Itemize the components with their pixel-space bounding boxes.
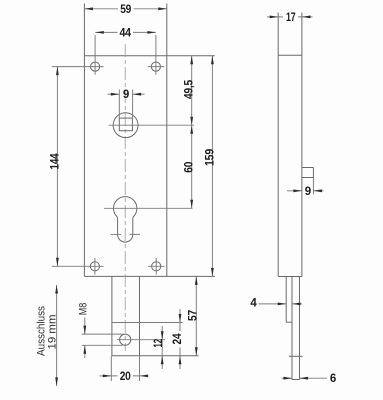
dimension 44: [95, 27, 156, 40]
dimension 12: [153, 326, 165, 369]
dimension 17: [267, 11, 313, 24]
svg-text:49,5: 49,5: [184, 79, 196, 99]
svg-text:19 mm: 19 mm: [47, 315, 59, 350]
side case top line: [278, 54, 302, 56]
hole top-left: [52, 35, 104, 75]
svg-text:9: 9: [305, 186, 311, 198]
svg-text:6: 6: [330, 373, 336, 385]
square follower hole: [109, 113, 194, 138]
dimension 24: [172, 309, 184, 369]
rod front strip (4mm): [286, 277, 292, 323]
dimension 9 side: [287, 178, 324, 198]
dimension 159: [204, 56, 216, 277]
hole bottom-left: [52, 258, 104, 275]
rod bar (6mm): [289, 277, 303, 380]
dimension 60: [184, 125, 196, 208]
dimension 57: [187, 276, 199, 355]
dimension 49,5: [184, 56, 196, 126]
svg-text:12: 12: [153, 339, 165, 348]
svg-text:144: 144: [49, 153, 61, 170]
svg-text:24: 24: [172, 333, 184, 345]
dimension 144: [49, 67, 61, 267]
Ausschluss 19 mm dimension: [36, 285, 59, 386]
hole bottom-right: [148, 258, 165, 275]
front plate outline: [84, 4, 215, 277]
svg-text:159: 159: [204, 149, 216, 166]
svg-text:M8: M8: [78, 303, 90, 316]
svg-text:9: 9: [123, 89, 129, 101]
svg-text:20: 20: [120, 371, 131, 383]
dimension 6: [282, 373, 337, 385]
M8 dimension: [78, 303, 123, 358]
side case bottom line: [278, 276, 302, 278]
dimension 4: [250, 298, 302, 310]
euro profile cylinder hole: [104, 197, 193, 242]
svg-text:60: 60: [184, 162, 196, 173]
dimension 59: [84, 3, 166, 16]
svg-text:17: 17: [286, 12, 296, 24]
centerline vertical: [124, 44, 126, 351]
dimension 20: [100, 356, 149, 383]
dimension 9 square: [108, 89, 145, 119]
M8 hole: [117, 334, 165, 345]
hole top-right: [148, 35, 164, 75]
side view plate edges: [278, 13, 302, 277]
svg-text:59: 59: [120, 4, 131, 16]
side follower protrusion: [302, 168, 314, 178]
svg-text:44: 44: [119, 28, 131, 40]
lock case below plate: [112, 276, 199, 355]
case inner line / rod end: [112, 322, 183, 324]
svg-text:57: 57: [187, 310, 199, 321]
svg-text:4: 4: [250, 298, 257, 310]
